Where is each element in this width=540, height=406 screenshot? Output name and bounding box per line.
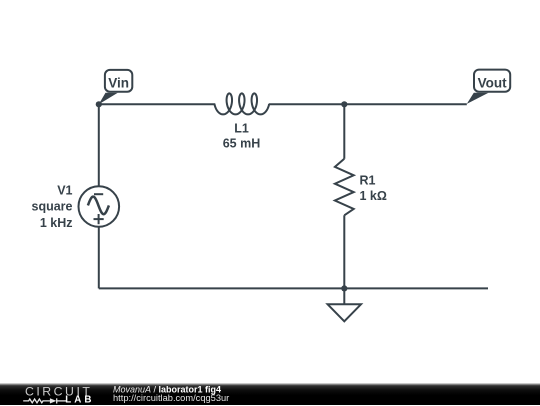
node flag Vout text <box>478 75 507 90</box>
node flag Vout pointer <box>467 93 489 104</box>
credit line author/title <box>113 384 229 403</box>
wire bottom rail <box>99 287 488 289</box>
svg-text:L1: L1 <box>234 121 249 135</box>
node junction dot at Vin node <box>96 101 102 107</box>
ground stub wire <box>343 288 345 304</box>
label L1 <box>234 121 249 135</box>
V1 minus sign (top terminal polarity) <box>94 193 103 195</box>
svg-text:Vout: Vout <box>478 75 507 90</box>
svg-text:1 kHz: 1 kHz <box>40 216 73 230</box>
wire from resistor R1 down to bottom rail junction <box>343 215 345 288</box>
label V1 <box>57 184 72 198</box>
svg-text:LAB: LAB <box>65 394 94 405</box>
wire top-left from node Vin to inductor L1 left lead <box>99 103 215 105</box>
label square <box>32 200 73 214</box>
value 65 mH <box>223 136 261 150</box>
voltage source V1 circle <box>79 186 120 227</box>
value 1 kHz <box>40 216 73 230</box>
resistor R1 zigzag <box>335 159 354 216</box>
footer black bar <box>0 383 540 405</box>
wire from top rail junction down to resistor R1 <box>343 104 345 159</box>
svg-text:R1: R1 <box>360 173 376 187</box>
node flag Vin box <box>105 70 132 92</box>
value 1 kOhm <box>360 189 387 203</box>
svg-text:V1: V1 <box>57 184 72 198</box>
svg-text:65 mH: 65 mH <box>223 136 261 150</box>
svg-text:http://circuitlab.com/cqg53ur: http://circuitlab.com/cqg53ur <box>113 393 229 403</box>
inductor L1 coil <box>214 93 269 114</box>
svg-text:Vin: Vin <box>108 75 129 90</box>
CircuitLab logo wordmark CIRCUIT <box>25 384 92 398</box>
node flag Vout box <box>474 70 510 92</box>
wire left rail upper: node Vin down to V1 top terminal <box>98 103 100 186</box>
V1 plus sign (bottom terminal polarity) <box>94 214 104 224</box>
logo resistor squiggle and diode <box>23 398 66 403</box>
V1 sine waveform glyph <box>88 197 109 215</box>
ground symbol triangle <box>328 304 361 321</box>
wire from inductor L1 right lead to Vout pointer <box>269 103 467 105</box>
node flag Vin text <box>108 75 129 90</box>
svg-text:1 kΩ: 1 kΩ <box>360 189 387 203</box>
label R1 <box>360 173 376 187</box>
logo wordmark LAB <box>65 394 94 405</box>
node junction dot top rail at resistor R1 <box>341 101 347 107</box>
node flag Vin pointer <box>99 93 118 105</box>
node junction dot bottom rail at ground <box>341 285 347 291</box>
svg-text:square: square <box>32 200 73 214</box>
wire left rail lower: V1 bottom terminal down to bottom rail <box>98 227 100 289</box>
